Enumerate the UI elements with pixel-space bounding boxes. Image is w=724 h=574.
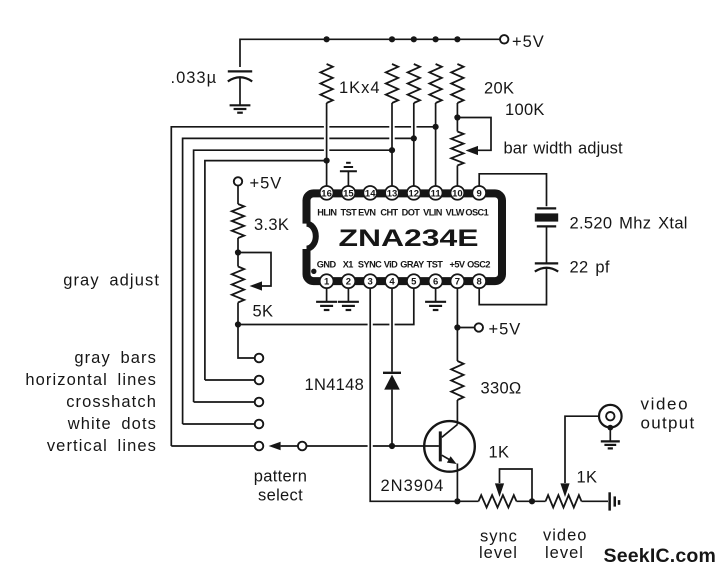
terminal +5V left — [234, 177, 242, 185]
svg-text:9: 9 — [477, 188, 482, 199]
resistor R2 1K (pin13 column) — [386, 64, 398, 103]
capacitor .033u — [228, 70, 252, 72]
svg-text:7: 7 — [455, 277, 460, 288]
svg-text:horizontal lines: horizontal lines — [25, 371, 157, 389]
svg-text:DOT: DOT — [402, 207, 421, 217]
crystal Y1 2.520 Mhz — [537, 207, 556, 209]
resistor 330 ohm — [451, 361, 463, 400]
svg-text:OSC2: OSC2 — [467, 259, 490, 269]
resistor R4 1K (pin11 column) — [429, 64, 441, 103]
svg-text:pattern: pattern — [254, 468, 307, 486]
svg-text:12: 12 — [409, 188, 420, 199]
wire bus A vertical-lines net — [171, 127, 435, 446]
svg-text:20K: 20K — [484, 80, 514, 98]
svg-text:.033µ: .033µ — [171, 69, 218, 87]
ground below pin6 — [435, 288, 437, 302]
svg-text:HLIN: HLIN — [317, 207, 337, 217]
terminal +5V lower — [457, 327, 474, 329]
svg-text:2: 2 — [346, 277, 351, 288]
svg-text:15: 15 — [343, 188, 354, 199]
potentiometer 1K video level — [546, 495, 582, 507]
connector video output — [599, 405, 622, 428]
node IC pin circles bottom row 1..8 — [320, 274, 486, 288]
svg-text:1: 1 — [324, 277, 330, 288]
potentiometer 100K bar width adjust — [451, 132, 463, 166]
wire pin3 SYNC to emitter rail — [370, 288, 457, 502]
svg-text:16: 16 — [321, 188, 332, 199]
svg-text:100K: 100K — [505, 101, 545, 119]
resistor R1 1K (pin16 column) — [320, 64, 332, 103]
svg-text:VLW: VLW — [446, 207, 465, 217]
svg-text:crosshatch: crosshatch — [66, 393, 157, 411]
svg-text:level: level — [545, 544, 584, 562]
wire pattern common to base — [307, 445, 439, 447]
wire gray-bars drop — [238, 325, 255, 359]
svg-text:select: select — [258, 487, 303, 505]
svg-text:SeekIC.com: SeekIC.com — [604, 545, 717, 567]
svg-text:SYNC: SYNC — [358, 259, 382, 269]
ground below pin1 — [326, 288, 328, 302]
ground below pin2 — [347, 288, 349, 302]
svg-text:1N4148: 1N4148 — [305, 376, 365, 394]
svg-text:1K: 1K — [577, 469, 598, 487]
node top rail junction dots — [324, 36, 461, 42]
svg-text:5: 5 — [411, 277, 417, 288]
capacitor 22pf — [535, 262, 558, 264]
svg-text:2.520 Mhz Xtal: 2.520 Mhz Xtal — [570, 215, 688, 233]
node pin1 marker dot — [311, 269, 316, 274]
wire pin9 to crystal — [479, 174, 546, 207]
wire bus C crosshatch net — [194, 150, 392, 402]
ground above pin15 — [347, 171, 349, 186]
svg-text:1Kx4: 1Kx4 — [339, 79, 381, 97]
resistor R5 20K (pin10 column) — [451, 64, 463, 103]
svg-text:VLIN: VLIN — [423, 207, 443, 217]
wire pin4 down — [391, 288, 393, 372]
svg-text:vertical lines: vertical lines — [47, 437, 157, 455]
svg-text:EVN: EVN — [358, 207, 376, 217]
svg-text:13: 13 — [387, 188, 398, 199]
resistor R3 1K (pin12 column) — [408, 64, 420, 103]
svg-text:8: 8 — [477, 277, 482, 288]
diode 1N4148 — [383, 372, 401, 374]
svg-text:1K: 1K — [489, 444, 510, 462]
svg-text:4: 4 — [389, 277, 395, 288]
switch wiper arrow — [269, 442, 281, 451]
svg-text:CHT: CHT — [380, 207, 398, 217]
svg-text:TST: TST — [427, 259, 444, 269]
svg-text:GRAY: GRAY — [400, 259, 424, 269]
resistor 3.3K — [232, 204, 244, 238]
svg-text:TST: TST — [341, 207, 358, 217]
svg-text:+5V: +5V — [450, 259, 466, 269]
svg-text:10: 10 — [452, 188, 463, 199]
svg-text:GND: GND — [317, 259, 337, 269]
svg-text:gray bars: gray bars — [74, 349, 157, 367]
wire row stubs to select contacts — [171, 380, 254, 446]
wire 5K bottom to pin5 GRAY — [238, 287, 414, 324]
node IC pin circles top row 16..9 — [320, 186, 486, 200]
svg-text:22 pf: 22 pf — [570, 259, 610, 277]
ground below connector — [609, 428, 611, 441]
wire pin7 down — [456, 288, 458, 362]
ground chassis right — [608, 492, 620, 510]
ground below .033u — [230, 105, 251, 112]
op-amp U1 ZNA234E IC body — [307, 193, 503, 281]
svg-text:11: 11 — [431, 188, 442, 199]
svg-text:+5V: +5V — [512, 33, 545, 51]
switch pattern select contacts — [255, 354, 264, 363]
svg-text:video: video — [641, 395, 690, 414]
svg-text:330Ω: 330Ω — [481, 380, 522, 398]
svg-text:level: level — [479, 544, 518, 562]
svg-text:6: 6 — [433, 277, 438, 288]
wire bus D horizontal-lines net — [205, 161, 327, 380]
pin labels bottom row — [317, 259, 491, 269]
wire 22pf to pin8 — [479, 268, 546, 305]
svg-text:ViD: ViD — [384, 259, 398, 269]
svg-text:ZNA234E: ZNA234E — [339, 225, 479, 252]
svg-text:output: output — [641, 414, 696, 433]
svg-text:5K: 5K — [253, 302, 274, 320]
svg-text:X1: X1 — [343, 259, 354, 269]
svg-text:OSC1: OSC1 — [465, 207, 488, 217]
terminal +5V top — [500, 35, 508, 43]
pin labels top row — [317, 207, 488, 217]
svg-text:3.3K: 3.3K — [254, 216, 289, 234]
wire +5V top rail — [240, 39, 500, 67]
wire bus B white-dots net — [183, 138, 414, 424]
svg-text:bar width adjust: bar width adjust — [504, 140, 623, 158]
svg-text:+5V: +5V — [250, 174, 283, 192]
svg-text:+5V: +5V — [489, 321, 522, 339]
pin numbers — [321, 188, 482, 287]
potentiometer 5K gray adjust — [232, 267, 244, 303]
svg-text:sync: sync — [480, 528, 518, 546]
svg-text:video: video — [543, 527, 587, 545]
transistor Q1 2N3904 — [424, 421, 475, 472]
svg-text:gray adjust: gray adjust — [63, 272, 160, 290]
potentiometer 1K sync level — [457, 500, 478, 502]
svg-text:2N3904: 2N3904 — [381, 477, 445, 495]
svg-text:14: 14 — [365, 188, 376, 199]
svg-text:white dots: white dots — [67, 415, 157, 433]
svg-text:3: 3 — [368, 277, 373, 288]
